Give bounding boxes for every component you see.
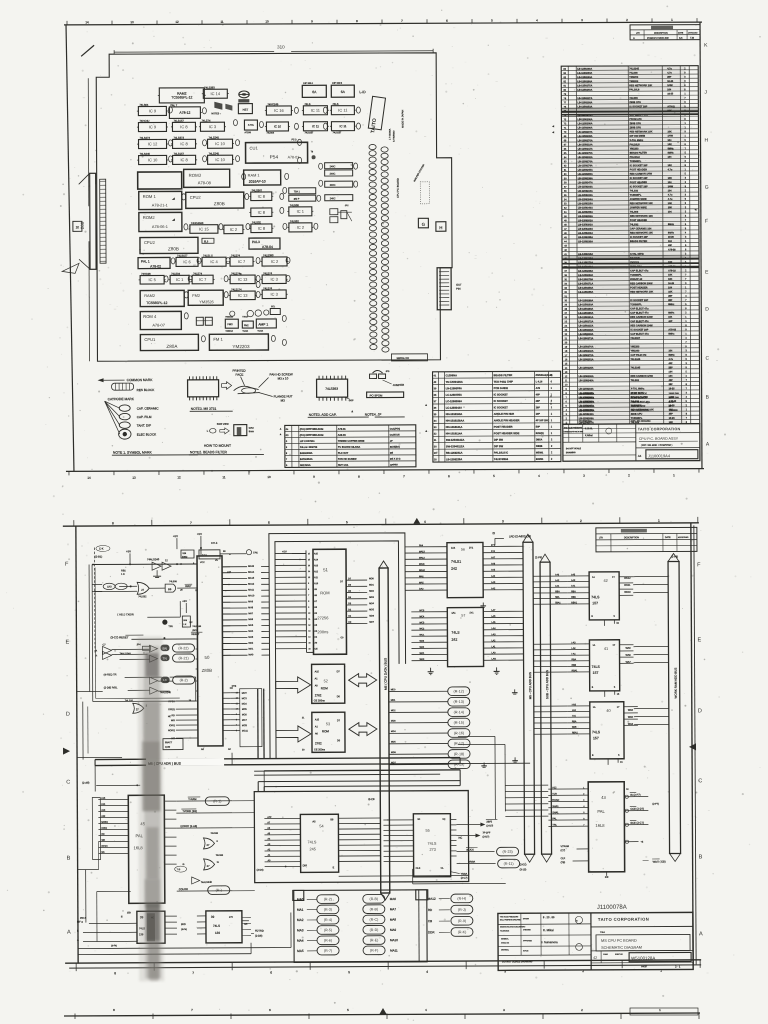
bus arrow left of 53 bbox=[276, 726, 311, 742]
svg-text:MC3: MC3 bbox=[242, 698, 248, 700]
svg-text:IC 12: IC 12 bbox=[148, 141, 158, 146]
resistor network RN3 bbox=[325, 181, 353, 187]
svg-text:PIN: PIN bbox=[456, 287, 460, 291]
svg-text:12: 12 bbox=[177, 475, 181, 479]
svg-text:YM3014: YM3014 bbox=[225, 331, 233, 333]
IC 5 bbox=[139, 272, 166, 284]
IC 11 d bbox=[330, 122, 356, 135]
svg-text:(7B): (7B) bbox=[561, 861, 566, 864]
svg-text:LC-1258043A: LC-1258043A bbox=[446, 406, 462, 410]
svg-text:74LS08: 74LS08 bbox=[169, 581, 177, 583]
svg-text:A: A bbox=[67, 930, 71, 936]
svg-text:74LS257: 74LS257 bbox=[332, 132, 342, 134]
svg-text:RB-1258241A: RB-1258241A bbox=[446, 451, 463, 455]
svg-text:NOTE 1. SYMBOL MARK: NOTE 1. SYMBOL MARK bbox=[113, 451, 153, 455]
svg-text:WA5: WA5 bbox=[628, 716, 634, 719]
svg-text:5: 5 bbox=[346, 520, 348, 524]
svg-text:(2-F8): (2-F8) bbox=[671, 554, 678, 558]
svg-text:(R-21): (R-21) bbox=[178, 656, 188, 660]
svg-text:273: 273 bbox=[430, 848, 436, 852]
wires 157 outputs to WORK RAM bus bbox=[633, 577, 669, 725]
svg-text:T-RAM: T-RAM bbox=[188, 797, 196, 801]
svg-text:16-25: 16-25 bbox=[668, 283, 675, 285]
svg-text:A5: A5 bbox=[312, 819, 316, 823]
svg-text:50P: 50P bbox=[536, 426, 541, 429]
svg-text:CATHODE MARK: CATHODE MARK bbox=[108, 397, 135, 401]
svg-text:IC 9: IC 9 bbox=[149, 108, 157, 113]
svg-text:I2CR07 (2-A6): I2CR07 (2-A6) bbox=[180, 824, 197, 828]
svg-text:MA8: MA8 bbox=[390, 918, 397, 922]
svg-text:14: 14 bbox=[85, 20, 89, 24]
svg-text:RBB: RBB bbox=[572, 665, 577, 667]
svg-text:L 4.16: L 4.16 bbox=[536, 380, 543, 383]
svg-text:28P: 28P bbox=[536, 400, 541, 403]
svg-text:74LS32: 74LS32 bbox=[125, 699, 134, 702]
svg-text:FLG NUT: FLG NUT bbox=[338, 452, 349, 455]
svg-text:MD5: MD5 bbox=[369, 609, 374, 611]
bus arrow right of 53 bbox=[349, 723, 377, 736]
svg-text:74LS393: 74LS393 bbox=[204, 85, 215, 89]
svg-text:MD2: MD2 bbox=[369, 591, 374, 593]
svg-text:LAN: LAN bbox=[492, 658, 497, 661]
svg-text:COLOR: COLOR bbox=[179, 887, 188, 891]
resistor network RN4 bbox=[325, 195, 353, 201]
svg-text:4.7u: 4.7u bbox=[669, 401, 674, 404]
svg-text:WA2: WA2 bbox=[419, 646, 424, 649]
svg-text:ANGLE PIN HEADER: ANGLE PIN HEADER bbox=[494, 418, 520, 422]
svg-text:12: 12 bbox=[308, 625, 310, 627]
svg-text:LC-1258780A: LC-1258780A bbox=[446, 393, 462, 397]
IC 40 74LS157 bbox=[568, 702, 638, 759]
svg-text:NH-1319114A: NH-1319114A bbox=[446, 431, 463, 435]
svg-text:RFSH: RFSH bbox=[102, 846, 108, 848]
IC 54 74LS245 bbox=[256, 814, 380, 873]
svg-text:IC 2: IC 2 bbox=[297, 225, 305, 230]
label EL3 bbox=[202, 238, 214, 243]
svg-text:WORK RAM ADD BUS: WORK RAM ADD BUS bbox=[674, 668, 678, 699]
svg-text:53: 53 bbox=[326, 722, 330, 726]
svg-text:4.7u: 4.7u bbox=[668, 168, 673, 171]
svg-text:OUT: OUT bbox=[456, 283, 462, 287]
svg-text:74LS373: 74LS373 bbox=[173, 136, 184, 140]
ROM bank enclosure staple bbox=[269, 533, 406, 759]
svg-text:27256: 27256 bbox=[317, 615, 329, 620]
svg-text:10K: 10K bbox=[668, 144, 673, 146]
IC 50 Z80B CPU bbox=[193, 556, 231, 751]
svg-text:74LS367: 74LS367 bbox=[252, 188, 263, 192]
svg-text:74LS74: 74LS74 bbox=[201, 118, 211, 122]
svg-text:SHA1: SHA1 bbox=[552, 805, 559, 808]
IC 45 PAL16L8 bbox=[92, 795, 177, 903]
svg-text:16-25: 16-25 bbox=[669, 418, 676, 420]
svg-text:NORQ: NORQ bbox=[168, 730, 175, 732]
svg-text:Z80A: Z80A bbox=[166, 344, 178, 349]
svg-text:22: 22 bbox=[308, 559, 310, 561]
svg-text:MA9: MA9 bbox=[248, 600, 253, 603]
svg-text:+5V: +5V bbox=[282, 550, 287, 554]
svg-text:C: C bbox=[698, 778, 702, 784]
svg-text:IS (2-F7): IS (2-F7) bbox=[630, 793, 640, 797]
svg-text:200ns: 200ns bbox=[317, 629, 328, 634]
svg-text:(R-13): (R-13) bbox=[454, 700, 464, 704]
svg-text:SKIP: SKIP bbox=[349, 400, 355, 402]
svg-text:(PO) DETPHER-ROM: (PO) DETPHER-ROM bbox=[300, 428, 324, 431]
svg-text:3: 3 bbox=[502, 519, 504, 523]
svg-text:D: D bbox=[698, 708, 702, 714]
svg-text:SCHEMATIC DIAGRAM: SCHEMATIC DIAGRAM bbox=[601, 946, 642, 950]
IC RAM1 2016AP-10 bbox=[244, 170, 281, 185]
svg-text:28P: 28P bbox=[669, 414, 674, 416]
signal table MA0-MA11 with callouts bbox=[293, 890, 428, 963]
IC 57 74LS244 bbox=[411, 607, 523, 667]
svg-text:(R-9): (R-9) bbox=[458, 919, 466, 923]
wire stubs into CPU bbox=[195, 639, 197, 691]
svg-text:PAL3: PAL3 bbox=[252, 240, 260, 244]
svg-text:(R-3): (R-3) bbox=[324, 908, 332, 912]
svg-text:WA12: WA12 bbox=[624, 577, 631, 580]
svg-text:TINNED COPPER WIRE: TINNED COPPER WIRE bbox=[338, 440, 365, 443]
svg-text:8: 8 bbox=[308, 601, 309, 603]
svg-text:MC11: MC11 bbox=[242, 731, 249, 733]
svg-text:50: 50 bbox=[205, 655, 210, 660]
svg-text:8MHz: 8MHz bbox=[668, 148, 675, 150]
IC 13 a bbox=[229, 271, 257, 283]
svg-text:◄: ◄ bbox=[694, 208, 697, 212]
svg-text:74ALS240: 74ALS240 bbox=[201, 881, 213, 884]
svg-text:CAP. CERAMIC: CAP. CERAMIC bbox=[137, 406, 160, 410]
svg-text:IC 3: IC 3 bbox=[209, 124, 217, 129]
svg-text:74LS32: 74LS32 bbox=[210, 833, 218, 835]
svg-text:PAL16L8 IC: PAL16L8 IC bbox=[494, 450, 508, 454]
svg-text:CAP ELECT 47u: CAP ELECT 47u bbox=[631, 401, 651, 404]
svg-text:CODE: CODE bbox=[603, 954, 608, 956]
svg-text:MA4: MA4 bbox=[248, 630, 253, 633]
dip switch 6A block B bbox=[331, 83, 354, 98]
svg-text:8MHz: 8MHz bbox=[668, 152, 675, 154]
svg-text:WA8: WA8 bbox=[626, 654, 632, 657]
IC 14 74LS393 bbox=[202, 85, 229, 98]
svg-text:PC BOARD SILKRA: PC BOARD SILKRA bbox=[338, 446, 361, 449]
svg-text:IC 14: IC 14 bbox=[211, 91, 221, 96]
node callouts R-12 to R-19 bbox=[389, 687, 470, 769]
svg-text:DESCRIPTION: DESCRIPTION bbox=[654, 33, 668, 35]
svg-text:MA5: MA5 bbox=[248, 624, 253, 627]
IC ROM2 A78-06-1 bbox=[139, 212, 182, 231]
svg-text:NOTE3→: NOTE3→ bbox=[211, 113, 221, 115]
svg-text:8: 8 bbox=[114, 971, 116, 975]
svg-text:CPU1: CPU1 bbox=[144, 337, 156, 342]
svg-text:(2-D7): (2-D7) bbox=[486, 824, 493, 827]
IC HST bbox=[238, 99, 252, 114]
svg-text:YL014: YL014 bbox=[242, 331, 249, 333]
svg-text:74LS04: 74LS04 bbox=[139, 103, 149, 107]
svg-text:52: 52 bbox=[324, 679, 328, 683]
svg-text:6: 6 bbox=[308, 589, 309, 591]
label LRD callout bbox=[493, 532, 531, 545]
resistor network RN6 bbox=[289, 195, 316, 201]
IC ROM1 A78-21-1 bbox=[139, 191, 182, 209]
svg-text:P5 3: P5 3 bbox=[292, 138, 298, 141]
svg-text:10K: 10K bbox=[668, 279, 673, 281]
svg-text:ELEC BLOCK: ELEC BLOCK bbox=[631, 397, 647, 400]
svg-text:WAIT: WAIT bbox=[185, 584, 192, 588]
svg-text:4: 4 bbox=[583, 806, 584, 808]
IC CPU2 Z80B bbox=[186, 192, 244, 208]
svg-text:IC 10: IC 10 bbox=[215, 141, 225, 146]
svg-text:YM3526: YM3526 bbox=[669, 409, 679, 412]
svg-text:WA3: WA3 bbox=[419, 640, 424, 643]
svg-text:MILLI PREFERR SPECIFIED: MILLI PREFERR SPECIFIED bbox=[500, 919, 522, 921]
svg-text:74ALS240: 74ALS240 bbox=[147, 557, 160, 561]
svg-text:11: 11 bbox=[308, 619, 310, 621]
IC 52 ROM 2764 bbox=[312, 664, 345, 703]
svg-text:WC4: WC4 bbox=[419, 616, 425, 618]
svg-text:MC4: MC4 bbox=[242, 704, 248, 706]
svg-text:15: 15 bbox=[308, 642, 310, 644]
svg-text:AP: AP bbox=[163, 679, 167, 683]
svg-text:74LS157: 74LS157 bbox=[177, 254, 188, 258]
svg-text:MD1: MD1 bbox=[391, 700, 396, 702]
svg-text:MD5: MD5 bbox=[391, 741, 396, 743]
svg-text:IC 8: IC 8 bbox=[180, 124, 188, 129]
svg-text:A15: A15 bbox=[315, 670, 320, 673]
svg-text:E: E bbox=[65, 640, 69, 646]
svg-text:IC 2: IC 2 bbox=[230, 227, 238, 232]
svg-text:(R-16): (R-16) bbox=[454, 731, 464, 735]
svg-text:MA11: MA11 bbox=[390, 948, 398, 952]
svg-text:(R-K): (R-K) bbox=[458, 930, 467, 934]
svg-text:NOTE4. JP: NOTE4. JP bbox=[365, 413, 382, 417]
svg-text:157: 157 bbox=[593, 736, 599, 740]
svg-text:MD3: MD3 bbox=[369, 597, 374, 599]
small parts table annotations bbox=[351, 403, 428, 433]
svg-text:i3-C8: i3-C8 bbox=[368, 797, 375, 801]
svg-text:74LS: 74LS bbox=[451, 631, 460, 635]
svg-text:TS-CX0042SA: TS-CX0042SA bbox=[446, 380, 463, 384]
svg-text:2016AP-10: 2016AP-10 bbox=[249, 180, 266, 184]
svg-text:A78-01: A78-01 bbox=[338, 428, 347, 431]
svg-text:74LS32: 74LS32 bbox=[290, 219, 300, 223]
svg-text:MD6: MD6 bbox=[369, 615, 374, 617]
svg-text:FM OPERATOR: FM OPERATOR bbox=[631, 409, 649, 412]
svg-text:NOTE3. M8 3731: NOTE3. M8 3731 bbox=[191, 407, 217, 411]
svg-text:DO NOT SCALE: DO NOT SCALE bbox=[566, 447, 582, 450]
IC RAM2 TC5565PL-12 bbox=[158, 88, 206, 103]
svg-text:40P: 40P bbox=[669, 379, 674, 382]
svg-text:1A4: 1A4 bbox=[451, 547, 456, 550]
svg-text:3: 3 bbox=[583, 800, 584, 802]
svg-text:(3-C7) RESET: (3-C7) RESET bbox=[110, 635, 128, 639]
svg-text:8: 8 bbox=[112, 521, 114, 525]
svg-text:ROM: ROM bbox=[320, 590, 329, 595]
bus arrow right of 52 bbox=[349, 674, 377, 687]
svg-text:H: H bbox=[439, 225, 442, 230]
svg-text:ROM3: ROM3 bbox=[189, 173, 202, 178]
IC 7 a bbox=[229, 253, 255, 266]
label SERIAL NO bbox=[391, 354, 427, 361]
svg-text:4: 4 bbox=[426, 970, 428, 974]
svg-text:75A 1: 75A 1 bbox=[294, 190, 301, 193]
svg-text:RES BLOCK: RES BLOCK bbox=[137, 388, 156, 392]
svg-text:52W(2): 52W(2) bbox=[536, 432, 544, 435]
svg-text:10K: 10K bbox=[668, 207, 673, 209]
svg-text:(3-F4): (3-F4) bbox=[181, 929, 187, 931]
label MADE IN JAPAN bbox=[401, 109, 404, 127]
svg-text:CPU PC BOARD: CPU PC BOARD bbox=[631, 419, 651, 423]
svg-text:#102(BA): #102(BA) bbox=[390, 446, 400, 449]
svg-text:SUB - CPU ADD BUS: SUB - CPU ADD BUS bbox=[545, 670, 549, 699]
IC ROM4 A78-07 bbox=[140, 311, 181, 329]
svg-text:LB-1258221A: LB-1258221A bbox=[579, 397, 595, 400]
wires data bus to IC 55 bbox=[383, 820, 413, 862]
svg-text:20: 20 bbox=[76, 225, 80, 229]
svg-text:NC: NC bbox=[244, 923, 248, 926]
svg-text:4P 10P 2NO: 4P 10P 2NO bbox=[536, 419, 549, 422]
svg-text:IC 8: IC 8 bbox=[258, 210, 266, 215]
svg-text:C: C bbox=[66, 780, 70, 786]
svg-text:MA9: MA9 bbox=[390, 928, 397, 932]
svg-text:13: 13 bbox=[132, 476, 136, 480]
svg-text:(R-23): (R-23) bbox=[502, 850, 512, 854]
svg-text:LB-1258222A: LB-1258222A bbox=[579, 401, 595, 404]
IC AMP1 bbox=[256, 319, 276, 333]
svg-text:74LS1: 74LS1 bbox=[451, 560, 461, 564]
svg-text:M5 ( CPU DATA ) BUS: M5 ( CPU DATA ) BUS bbox=[384, 658, 388, 690]
svg-text:5: 5 bbox=[308, 583, 309, 585]
svg-text:IC 5: IC 5 bbox=[148, 277, 156, 282]
svg-text:74LS: 74LS bbox=[307, 840, 316, 844]
svg-text:6: 6 bbox=[583, 818, 584, 820]
svg-text:B: B bbox=[67, 856, 71, 862]
svg-text:(R-E): (R-E) bbox=[370, 938, 379, 942]
IC 39 74LS139 pair bbox=[77, 868, 291, 954]
157 select stubs bbox=[604, 620, 623, 765]
IC 3 c bbox=[261, 286, 288, 298]
svg-text:DIP SW A: DIP SW A bbox=[303, 82, 313, 85]
svg-text:A78-08: A78-08 bbox=[198, 180, 212, 185]
svg-text:IC 1: IC 1 bbox=[297, 209, 305, 214]
svg-text:MA11: MA11 bbox=[419, 563, 425, 566]
resistor network RN1 bbox=[325, 163, 353, 169]
dimension 310 and 260 bbox=[79, 44, 434, 362]
svg-text:74LS74/534: 74LS74/534 bbox=[494, 457, 509, 461]
svg-text:A78: A78 bbox=[536, 387, 541, 390]
svg-text:POST HEADER: POST HEADER bbox=[494, 425, 513, 429]
svg-text:IC 16: IC 16 bbox=[274, 108, 284, 113]
svg-text:DESCRIPTION: DESCRIPTION bbox=[624, 537, 639, 539]
svg-text:9: 9 bbox=[308, 607, 309, 609]
svg-text:54: 54 bbox=[319, 824, 323, 828]
IC 11 a 74LS253 bbox=[302, 102, 329, 115]
IC 41 74LS157 bbox=[567, 640, 633, 691]
svg-text:JUMPER: JUMPER bbox=[393, 383, 405, 387]
svg-text:MD0: MD0 bbox=[391, 689, 396, 691]
svg-text:15D: 15D bbox=[127, 912, 131, 914]
svg-text:TN: TN bbox=[163, 657, 168, 661]
svg-text:ROM: ROM bbox=[321, 686, 329, 690]
svg-text:RBB: RBB bbox=[571, 597, 576, 599]
svg-text:10: 10 bbox=[265, 19, 269, 23]
svg-text:4: 4 bbox=[424, 520, 426, 524]
svg-text:IC 15: IC 15 bbox=[199, 226, 209, 231]
svg-text:2: 2 bbox=[580, 519, 582, 523]
svg-text:74HC08: 74HC08 bbox=[141, 272, 151, 276]
svg-text:MA5: MA5 bbox=[297, 949, 304, 953]
svg-text:IC 13: IC 13 bbox=[238, 293, 248, 298]
svg-text:(R-18): (R-18) bbox=[454, 752, 464, 756]
svg-text:▲: ▲ bbox=[550, 394, 553, 398]
svg-text:240C: 240C bbox=[330, 173, 336, 176]
svg-text:LTR: LTR bbox=[599, 537, 603, 539]
IC PAL3 A78-04 bbox=[249, 238, 280, 249]
svg-text:A78-21-1: A78-21-1 bbox=[152, 202, 168, 207]
IC 10 d 74LS245 bbox=[206, 151, 234, 164]
svg-text:J. Sumamora: J. Sumamora bbox=[541, 940, 558, 944]
svg-text:(2-D2): (2-D2) bbox=[520, 863, 527, 866]
svg-text:IC 3: IC 3 bbox=[271, 292, 279, 297]
svg-text:MA12: MA12 bbox=[428, 897, 436, 901]
svg-text:IC 10: IC 10 bbox=[215, 157, 225, 162]
svg-text:LTR: LTR bbox=[636, 33, 640, 35]
resistor network RN5 bbox=[289, 188, 316, 194]
svg-text:M3: M3 bbox=[281, 398, 286, 402]
TAITO silk logo bbox=[368, 96, 386, 134]
svg-text:(R-D): (R-D) bbox=[370, 928, 379, 932]
svg-text:RAM2: RAM2 bbox=[144, 293, 155, 298]
horizontal bus MS CPU ADR BUS bbox=[95, 757, 460, 767]
svg-text:J1100029A: J1100029A bbox=[579, 419, 592, 423]
IC 2 b bbox=[287, 219, 313, 232]
svg-text:10K: 10K bbox=[668, 275, 673, 277]
svg-text:8mm: 8mm bbox=[249, 431, 254, 433]
svg-text:NH-1318121A: NH-1318121A bbox=[446, 425, 463, 429]
svg-text:CLK: CLK bbox=[561, 857, 566, 860]
svg-text:MD3: MD3 bbox=[391, 721, 396, 723]
svg-text:MC6: MC6 bbox=[242, 714, 248, 716]
svg-text:( I-B1 ) TXD/R: ( I-B1 ) TXD/R bbox=[117, 612, 134, 616]
svg-text:74LS32: 74LS32 bbox=[252, 220, 262, 224]
svg-text:K. Mikai: K. Mikai bbox=[543, 928, 554, 932]
vertical bus MS CPU DATA BUS bbox=[367, 561, 390, 900]
svg-text:(R-22): (R-22) bbox=[178, 646, 188, 650]
svg-text:74LS08: 74LS08 bbox=[290, 203, 300, 207]
svg-text:10: 10 bbox=[308, 613, 310, 615]
net labels MD0-MD7 bbox=[369, 578, 375, 623]
label board number vertical bbox=[388, 128, 395, 142]
svg-text:J.T 00000A: J.T 00000A bbox=[388, 128, 391, 140]
svg-text:MC7: MC7 bbox=[242, 720, 248, 722]
svg-text:240C: 240C bbox=[330, 165, 336, 168]
svg-text:MA7: MA7 bbox=[390, 907, 397, 911]
svg-text:NH-1318158AA: NH-1318158AA bbox=[446, 418, 465, 422]
svg-text:WA11: WA11 bbox=[624, 584, 631, 587]
svg-text:WC1: WC1 bbox=[419, 634, 425, 636]
svg-text:42: 42 bbox=[593, 956, 597, 960]
PAL 43 outputs bbox=[624, 789, 665, 864]
svg-text:2762: 2762 bbox=[315, 741, 322, 745]
svg-text:1/4W: 1/4W bbox=[667, 135, 673, 138]
misc routing wires bbox=[77, 699, 506, 891]
page 2 title block TAITO bbox=[498, 912, 693, 970]
svg-text:VTRAM: VTRAM bbox=[561, 845, 569, 848]
svg-text:IC 1: IC 1 bbox=[176, 277, 184, 282]
svg-text:MA7: MA7 bbox=[248, 612, 253, 615]
IC 4 bbox=[201, 253, 228, 266]
svg-text:LB-1258220A: LB-1258220A bbox=[579, 393, 595, 396]
svg-text:IC 7: IC 7 bbox=[238, 259, 246, 264]
wires bus to 157 inputs bbox=[533, 573, 568, 734]
svg-text:74LS74: 74LS74 bbox=[231, 253, 241, 257]
